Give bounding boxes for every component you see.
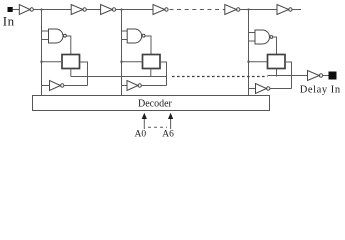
input terminal pad (In) [8,8,12,12]
node: select to L2 left pin [120,61,122,63]
wire L1 left pin to select line [42,61,63,63]
wire L1 right pin down to inverter N1 output [80,62,88,86]
wire N2 output to L2 right pin drop [141,85,166,87]
wire U3 out to U4, with tap node for cell 2 [116,9,153,11]
wire U5 out to U6, with tap node for cell 3 [240,9,277,11]
wire U2 out to U3 [86,9,100,11]
svg-text:A0: A0 [135,130,147,140]
dashed continuation wire (omitted stages, top row) [170,9,225,11]
NAND gate G3 [255,30,273,44]
inverter N1 (cell 1, bottom row) [50,81,64,91]
wire U1 out to U2, with tap node for cell 1 [33,9,71,11]
latch cell L1 (box) [62,55,80,69]
stub to NAND G2 input 2 [122,39,128,41]
select line cell 3 (tap from top wire down to decoder) [248,10,250,96]
svg-text:Decoder: Decoder [138,98,173,109]
svg-text:In: In [3,13,15,28]
latch cell L3 (box) [268,55,286,69]
stub to NAND G2 input 1 [122,30,128,32]
stub to NAND G1 input 1 [42,30,49,32]
wire G2 out to latch L2 top [145,36,151,55]
select line cell 2 (tap from top wire down to decoder) [121,10,123,96]
address input arrow A0 [142,113,147,129]
inverter U3 (top row) [101,5,116,15]
wire N3 output to L3 right pin drop [270,88,292,90]
wire N4 out to Delay In pad [323,75,329,77]
wire G1 out to latch L1 top [67,36,71,55]
dashed range between A0 and A6 [148,126,167,128]
wire In pad to buffer U1 [13,9,20,11]
address input arrow A6 [168,113,173,129]
node: select to L3 left pin [247,61,249,63]
inverter U1 (top row, input buffer) [19,5,33,15]
wire L3 left pin to select line [249,61,268,63]
inverter N3 (cell 3, bottom row) [256,84,270,94]
wire G3 out to latch L3 top [273,37,277,55]
stub to NAND G3 input 2 [249,40,256,42]
wire L2 left pin to select line [122,61,143,63]
inverter U2 (top row) [71,5,86,15]
latch cell L2 (box) [143,55,161,69]
wire L2 right pin down to inverter N2 output [160,62,167,86]
inverter U4 (top row) [153,5,168,15]
stub select line to N1 input [42,85,50,87]
wire L3 bottom pin to return bus [276,69,278,77]
svg-text:A6: A6 [162,130,174,140]
stub select line to N3 input [249,88,256,90]
wire U6 out (open end) [292,9,301,11]
wire N1 output to L1 right pin drop [64,85,88,87]
inverter U6 (top row) [277,5,292,15]
stub to NAND G1 input 2 [42,39,49,41]
decoder block [33,96,270,111]
NAND gate G1 [49,29,67,43]
return bus dashed continuation (omitted stages) [172,76,268,78]
stub to NAND G3 input 1 [249,32,256,34]
inverter N4 (output buffer, before Delay In pad) [308,71,323,81]
Delay In terminal pad [329,72,336,79]
node tap 1 on top wire [40,8,42,10]
return bus solid segment cells 1-2 [71,76,167,78]
inverter N2 (cell 2, bottom row) [127,81,141,91]
return bus solid segment to output buffer [268,75,308,77]
wire L1 bottom pin to return bus [70,69,72,77]
NAND gate G2 [127,29,145,43]
inverter U5 (top row) [225,5,240,15]
svg-text:Delay In: Delay In [300,85,341,96]
node tap 3 on top wire [247,8,249,10]
wire L3 right pin down to inverter N3 output [285,62,292,89]
select line cell 1 (tap from top wire down to decoder) [41,10,43,96]
wire L2 bottom pin to return bus [150,69,152,77]
node: select to L1 left pin [40,61,42,63]
node tap 2 on top wire [120,8,122,10]
stub select line to N2 input [122,85,128,87]
